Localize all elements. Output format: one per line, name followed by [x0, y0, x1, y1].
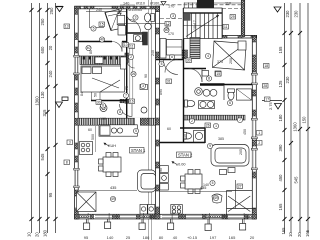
svg-text:5: 5 — [161, 62, 163, 66]
svg-text:155: 155 — [278, 46, 283, 54]
svg-text:3: 3 — [135, 16, 137, 20]
svg-text:170: 170 — [168, 5, 174, 9]
svg-text:11: 11 — [130, 45, 134, 49]
svg-text:10: 10 — [124, 43, 128, 47]
svg-text:30: 30 — [187, 59, 191, 63]
svg-text:15: 15 — [216, 72, 220, 76]
svg-text:8: 8 — [208, 77, 210, 81]
svg-text:25: 25 — [126, 235, 131, 240]
svg-text:84: 84 — [80, 92, 84, 96]
svg-text:545: 545 — [294, 176, 299, 184]
svg-text:200: 200 — [229, 58, 233, 64]
svg-text:4: 4 — [207, 54, 209, 58]
svg-text:410: 410 — [183, 134, 187, 140]
svg-text:600: 600 — [40, 46, 45, 54]
svg-text:18: 18 — [264, 64, 268, 68]
svg-text:60: 60 — [88, 128, 92, 132]
svg-text:160: 160 — [100, 117, 106, 121]
svg-text:Ø160: Ø160 — [150, 2, 159, 6]
svg-text:10: 10 — [288, 232, 293, 237]
svg-text:450: 450 — [278, 174, 283, 182]
svg-text:STAN 2: STAN 2 — [178, 153, 193, 158]
svg-text:20: 20 — [297, 232, 302, 237]
svg-text:8: 8 — [119, 110, 121, 114]
svg-text:165: 165 — [278, 203, 283, 211]
svg-text:11: 11 — [224, 25, 228, 29]
svg-text:18x17: 18x17 — [193, 20, 197, 30]
svg-text:315: 315 — [42, 109, 47, 117]
svg-text:165: 165 — [281, 227, 286, 235]
svg-text:28: 28 — [263, 84, 267, 88]
svg-text:17: 17 — [265, 98, 269, 102]
svg-text:STAN 1: STAN 1 — [131, 148, 146, 153]
svg-text:1: 1 — [258, 131, 260, 135]
svg-text:Ø110: Ø110 — [136, 2, 145, 6]
svg-text:1360: 1360 — [35, 96, 40, 106]
svg-text:80: 80 — [159, 235, 164, 240]
svg-text:40: 40 — [87, 46, 91, 50]
svg-text:29: 29 — [231, 15, 235, 19]
svg-text:3: 3 — [142, 84, 144, 88]
svg-text:180: 180 — [43, 229, 48, 237]
svg-text:140: 140 — [203, 183, 209, 187]
svg-text:110: 110 — [225, 2, 231, 6]
svg-text:20: 20 — [48, 45, 53, 50]
svg-text:Ø110/65: Ø110/65 — [129, 8, 143, 12]
svg-text:40: 40 — [100, 38, 104, 42]
svg-text:435: 435 — [110, 186, 116, 190]
svg-text:13: 13 — [65, 25, 69, 29]
svg-text:240: 240 — [48, 70, 53, 78]
svg-text:2: 2 — [191, 119, 193, 123]
svg-text:5: 5 — [93, 27, 95, 31]
svg-text:450: 450 — [243, 129, 247, 135]
svg-text:250: 250 — [49, 7, 54, 15]
svg-text:186: 186 — [143, 235, 150, 240]
svg-text:545: 545 — [40, 153, 45, 161]
svg-text:90: 90 — [159, 168, 163, 172]
svg-text:50: 50 — [94, 93, 98, 97]
svg-text:125: 125 — [278, 80, 283, 88]
svg-text:80: 80 — [89, 50, 93, 54]
svg-text:49: 49 — [214, 196, 218, 200]
svg-text:197: 197 — [210, 235, 217, 240]
svg-text:8: 8 — [171, 55, 173, 59]
svg-text:20: 20 — [35, 232, 40, 237]
svg-text:16: 16 — [130, 100, 134, 104]
svg-text:250: 250 — [40, 18, 45, 26]
svg-text:±0.00: ±0.00 — [176, 163, 185, 167]
svg-text:40: 40 — [173, 235, 178, 240]
svg-text:+0.15: +0.15 — [187, 235, 198, 240]
svg-text:500: 500 — [91, 134, 95, 140]
svg-text:90: 90 — [144, 74, 148, 78]
svg-text:75: 75 — [125, 86, 129, 90]
svg-text:5: 5 — [212, 181, 214, 185]
svg-text:26: 26 — [132, 72, 136, 76]
svg-text:895: 895 — [159, 89, 163, 95]
svg-text:230: 230 — [285, 10, 290, 18]
svg-text:165: 165 — [229, 235, 236, 240]
svg-text:3: 3 — [172, 14, 174, 18]
svg-text:150: 150 — [302, 116, 307, 124]
svg-text:60: 60 — [167, 127, 171, 131]
svg-text:390: 390 — [278, 144, 283, 152]
svg-text:9: 9 — [209, 144, 211, 148]
svg-text:165: 165 — [305, 229, 310, 237]
svg-text:180: 180 — [278, 114, 283, 122]
svg-text:KUH: KUH — [108, 144, 116, 148]
svg-text:2.75: 2.75 — [268, 101, 273, 110]
svg-text:205: 205 — [239, 149, 243, 155]
svg-text:10: 10 — [27, 232, 32, 237]
svg-text:230: 230 — [294, 10, 299, 18]
svg-text:2: 2 — [130, 55, 132, 59]
svg-text:20: 20 — [250, 235, 255, 240]
svg-text:8: 8 — [66, 161, 68, 165]
svg-text:170: 170 — [168, 32, 174, 36]
svg-text:230: 230 — [285, 76, 290, 84]
svg-text:26: 26 — [206, 124, 210, 128]
svg-text:31: 31 — [167, 80, 171, 84]
svg-text:30: 30 — [97, 101, 101, 105]
svg-text:3: 3 — [69, 141, 71, 145]
svg-text:2: 2 — [258, 141, 260, 145]
svg-text:240: 240 — [151, 50, 155, 56]
svg-text:6: 6 — [102, 104, 104, 108]
svg-text:130: 130 — [40, 91, 45, 99]
svg-text:15: 15 — [100, 23, 104, 27]
svg-text:7: 7 — [239, 118, 241, 122]
svg-text:6: 6 — [229, 101, 231, 105]
svg-text:1360: 1360 — [293, 122, 298, 132]
svg-text:27: 27 — [238, 185, 242, 189]
svg-text:95: 95 — [84, 235, 89, 240]
svg-text:5: 5 — [135, 129, 137, 133]
svg-text:95: 95 — [48, 192, 53, 197]
svg-text:7: 7 — [125, 94, 127, 98]
svg-text:375: 375 — [217, 60, 223, 64]
svg-text:140: 140 — [107, 235, 114, 240]
svg-text:240: 240 — [96, 8, 102, 12]
svg-text:1: 1 — [215, 124, 217, 128]
svg-text:385: 385 — [218, 137, 224, 141]
svg-text:49: 49 — [111, 197, 115, 201]
svg-text:375: 375 — [166, 24, 170, 30]
